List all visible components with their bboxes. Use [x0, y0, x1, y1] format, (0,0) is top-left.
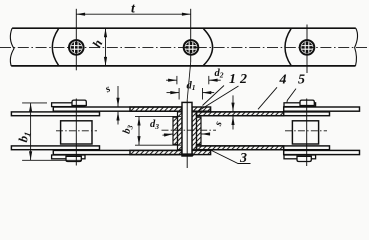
dimension d1 line right: [203, 92, 215, 94]
outer link 1-2 bottom plate hatched zone: [130, 150, 182, 154]
dimension h line: [105, 28, 107, 65]
leader for part 1 (outer plate): [203, 86, 225, 106]
left break line: [10, 28, 14, 66]
pin 1 bottom clip washer: [52, 155, 85, 159]
pin 3 top rivet head: [300, 100, 314, 105]
d1 extension ticks: [178, 88, 180, 100]
plate end arc at pin 2: [204, 29, 213, 66]
chain centerline at pin 3 (plan): [285, 130, 327, 132]
pin 2 bottom rivet cap: [181, 153, 193, 156]
svg-text:h: h: [90, 38, 106, 50]
pin 1 centerline (top view): [75, 9, 77, 71]
pin 2 (section, white): [182, 102, 192, 156]
outer link 1-2 bottom plate right stub: [192, 150, 211, 154]
inner link 2-3 bottom plate hatched zone: [197, 146, 284, 150]
leader for part 5 (outer plate of next link): [286, 89, 296, 107]
dimension b1 bottom extension line: [22, 159, 82, 161]
chain centerline at pin 1 (plan): [56, 130, 97, 132]
dimension s2 upper arrow: [232, 95, 234, 111]
outer link 1-2 top plate left part: [53, 107, 182, 111]
leader for part 4 (inner plate): [258, 87, 277, 109]
label b3: [121, 123, 134, 135]
leader for part 2 (bushing): [199, 86, 239, 111]
dimension d2 line right: [209, 79, 221, 81]
pin 1 hole: hatched core: [70, 41, 83, 54]
svg-text:b3: b3: [121, 123, 134, 135]
pin 3 hole: ring: [300, 40, 315, 55]
inner link 0-1 top plate: [11, 112, 99, 116]
pin 2 bushing right half (section): [192, 112, 197, 150]
inner link 2-3 bottom plate: [197, 146, 330, 150]
svg-text:s: s: [213, 120, 225, 129]
pin 2 hole: hatched core: [185, 41, 198, 54]
dimension d2 line left: [166, 79, 177, 81]
pin 1 hole: ring: [69, 40, 84, 55]
pin 3 hole: hatched core: [301, 41, 314, 54]
svg-text:5: 5: [298, 73, 305, 88]
pin 2 centerline (top view): [190, 9, 192, 62]
dimension b3 bottom extension line: [135, 144, 181, 146]
svg-text:d2: d2: [215, 68, 224, 80]
dimension t line: [76, 13, 190, 15]
label s1: [103, 84, 112, 96]
outer link 1-2 bottom plate left part: [53, 150, 182, 154]
inner link 2-3 top plate hatched zone: [197, 112, 284, 116]
inner link 0-1 bottom plate: [11, 146, 99, 150]
dimension b1 top extension line: [22, 102, 47, 104]
label b1: [16, 130, 33, 143]
dimension s1 upper arrow: [117, 86, 119, 107]
dimension d3 left arrow: [163, 134, 173, 135]
plate end arc at pin 1: [52, 29, 58, 66]
dimension b1 line: [30, 103, 32, 160]
dimension s1 lower arrow: [117, 112, 119, 125]
dimension d1 line left: [167, 92, 180, 94]
dimension b3 top extension line: [135, 115, 181, 117]
svg-text:d1: d1: [187, 80, 196, 92]
outer link 1-2 top plate hatched zone: [130, 107, 182, 111]
pin 1 top clip washer: [52, 103, 85, 107]
svg-text:4: 4: [279, 73, 287, 88]
outer link 3-4 top plate: [284, 107, 360, 111]
outer link 3-4 bottom plate: [284, 150, 360, 154]
leader for part 3 (roller): [203, 146, 251, 164]
d2 extension ticks: [176, 76, 178, 84]
dimension s2 lower arrow: [232, 116, 234, 129]
label s2: [213, 120, 225, 129]
chain axis centerline: [0, 46, 369, 48]
svg-text:s: s: [103, 84, 112, 96]
outer link 1-2 top plate right stub: [192, 107, 211, 111]
pin 3 bottom rivet head: [297, 156, 311, 161]
pin 1 axis (plan view): [75, 99, 77, 166]
svg-text:3: 3: [239, 151, 247, 166]
pin 3 top clip washer: [284, 103, 316, 107]
pin 1 bottom rivet head: [66, 156, 81, 161]
pin 3 centerline (top view): [306, 25, 308, 74]
dimension b3 line: [138, 117, 140, 145]
chain side view: plate band top edge: [12, 27, 356, 29]
roller at pin 3: [292, 121, 318, 144]
dimension d3 right arrow: [201, 133, 209, 135]
pin 2 roller left half (section): [173, 117, 178, 144]
chain centerline at pin 2 (plan): [162, 129, 217, 131]
pin 3 axis (plan view): [306, 99, 308, 167]
svg-text:b1: b1: [16, 130, 33, 143]
right break line: [355, 28, 358, 66]
pin 2 bushing left half (section): [178, 112, 183, 150]
pin 1 top rivet head: [72, 100, 86, 105]
svg-text:d3: d3: [150, 119, 159, 131]
roller at pin 1: [61, 121, 92, 144]
pin 2 axis (plan view): [186, 100, 188, 168]
label h: [90, 38, 106, 50]
inner link 2-3 top plate: [197, 112, 330, 116]
pin 2 hole: ring: [184, 40, 199, 55]
pin 2 roller right half (section): [197, 117, 202, 144]
plate end arc at pin 3: [285, 29, 291, 66]
pin 3 bottom clip washer: [284, 155, 316, 159]
svg-text:2: 2: [239, 72, 247, 87]
svg-text:1: 1: [229, 72, 236, 87]
chain side view: plate band bottom edge: [11, 65, 355, 67]
